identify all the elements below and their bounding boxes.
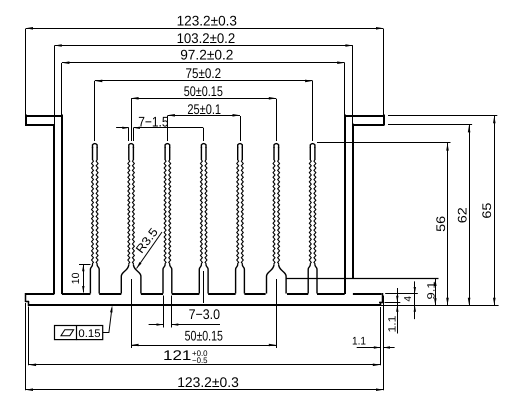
fin 6: [267, 144, 287, 294]
fin 2: [121, 144, 141, 294]
extension line base bottom right: [380, 305, 499, 307]
heatsink right flange: [344, 115, 384, 126]
svg-text:50±0.15: 50±0.15: [184, 83, 223, 99]
dimension 1.1 right step: [385, 288, 401, 334]
dimension 121 +0.0/-0.5 bottom: [29, 307, 381, 367]
svg-text:62: 62: [456, 207, 470, 223]
dimension 25+/-0.1 top: [167, 101, 240, 141]
heatsink right wall: [345, 115, 353, 295]
dimension 50+/-0.15 bottom: [131, 327, 276, 346]
dimension 103.2+/-0.2 top: [54, 30, 353, 125]
svg-text:10: 10: [70, 272, 82, 284]
heatsink left flange: [25, 115, 62, 127]
dimension 9.1 right: [426, 279, 438, 306]
extension line flange top to 65 dim: [388, 115, 497, 117]
fin 5: [236, 144, 245, 294]
svg-text:75±0.2: 75±0.2: [186, 65, 222, 81]
extension line flange underside to 62 dim: [388, 124, 472, 126]
svg-text:4: 4: [403, 296, 414, 302]
base platform edge line right: [286, 278, 438, 280]
svg-text:123.2±0.3: 123.2±0.3: [177, 13, 238, 29]
dimension 75+/-0.2 top: [95, 65, 313, 141]
fin 4: [199, 144, 208, 294]
svg-text:103.2±0.2: 103.2±0.2: [177, 30, 236, 46]
dimension 123.2+/-0.3 bottom: [26, 296, 384, 392]
svg-text:1.1: 1.1: [386, 315, 398, 332]
svg-text:65: 65: [480, 203, 494, 219]
dimension 123.2+/-0.3 top: [26, 13, 384, 115]
dimension 97.2+/-0.2 top: [62, 47, 345, 115]
dimension 50+/-0.15 top: [131, 83, 276, 141]
base top surface segments: [26, 293, 382, 295]
heatsink left wall: [54, 115, 62, 295]
fin 1: [90, 144, 99, 294]
dimension 10 fin root height: [70, 264, 90, 292]
svg-text:7−3.0: 7−3.0: [189, 306, 221, 322]
fin 7: [308, 144, 317, 294]
svg-text:7−1.5: 7−1.5: [138, 114, 169, 130]
svg-text:50±0.15: 50±0.15: [185, 327, 223, 343]
svg-text:−0.5: −0.5: [192, 356, 208, 365]
svg-text:9.1: 9.1: [426, 281, 438, 299]
dimension 1.1 bottom overhang: [352, 307, 395, 365]
base bottom outline with end steps: [25, 293, 384, 306]
dimension 4 right: [385, 281, 418, 319]
svg-text:25±0.1: 25±0.1: [187, 101, 221, 117]
svg-text:97.2±0.2: 97.2±0.2: [180, 47, 233, 63]
svg-text:123.2±0.3: 123.2±0.3: [177, 374, 239, 390]
svg-text:56: 56: [434, 216, 448, 232]
svg-text:1.1: 1.1: [352, 336, 366, 348]
dimension 56 right: [434, 143, 449, 305]
dimension 7-1.5 fin thickness: [116, 114, 203, 141]
fin 3: [163, 144, 172, 294]
dimension 65 right: [480, 116, 495, 306]
dimension 7-3.0 fin root thickness: [149, 296, 221, 328]
extension line fin tips to 56 dim: [317, 142, 451, 144]
flatness feature control frame 0.15: [55, 305, 113, 340]
extension lines fin2 fin4 fin6 centerlines below base: [132, 271, 277, 348]
dimension 62 right: [456, 125, 471, 306]
svg-text:121: 121: [163, 347, 192, 363]
radius leader R3.5: [133, 225, 162, 269]
svg-text:0.15: 0.15: [78, 328, 100, 340]
